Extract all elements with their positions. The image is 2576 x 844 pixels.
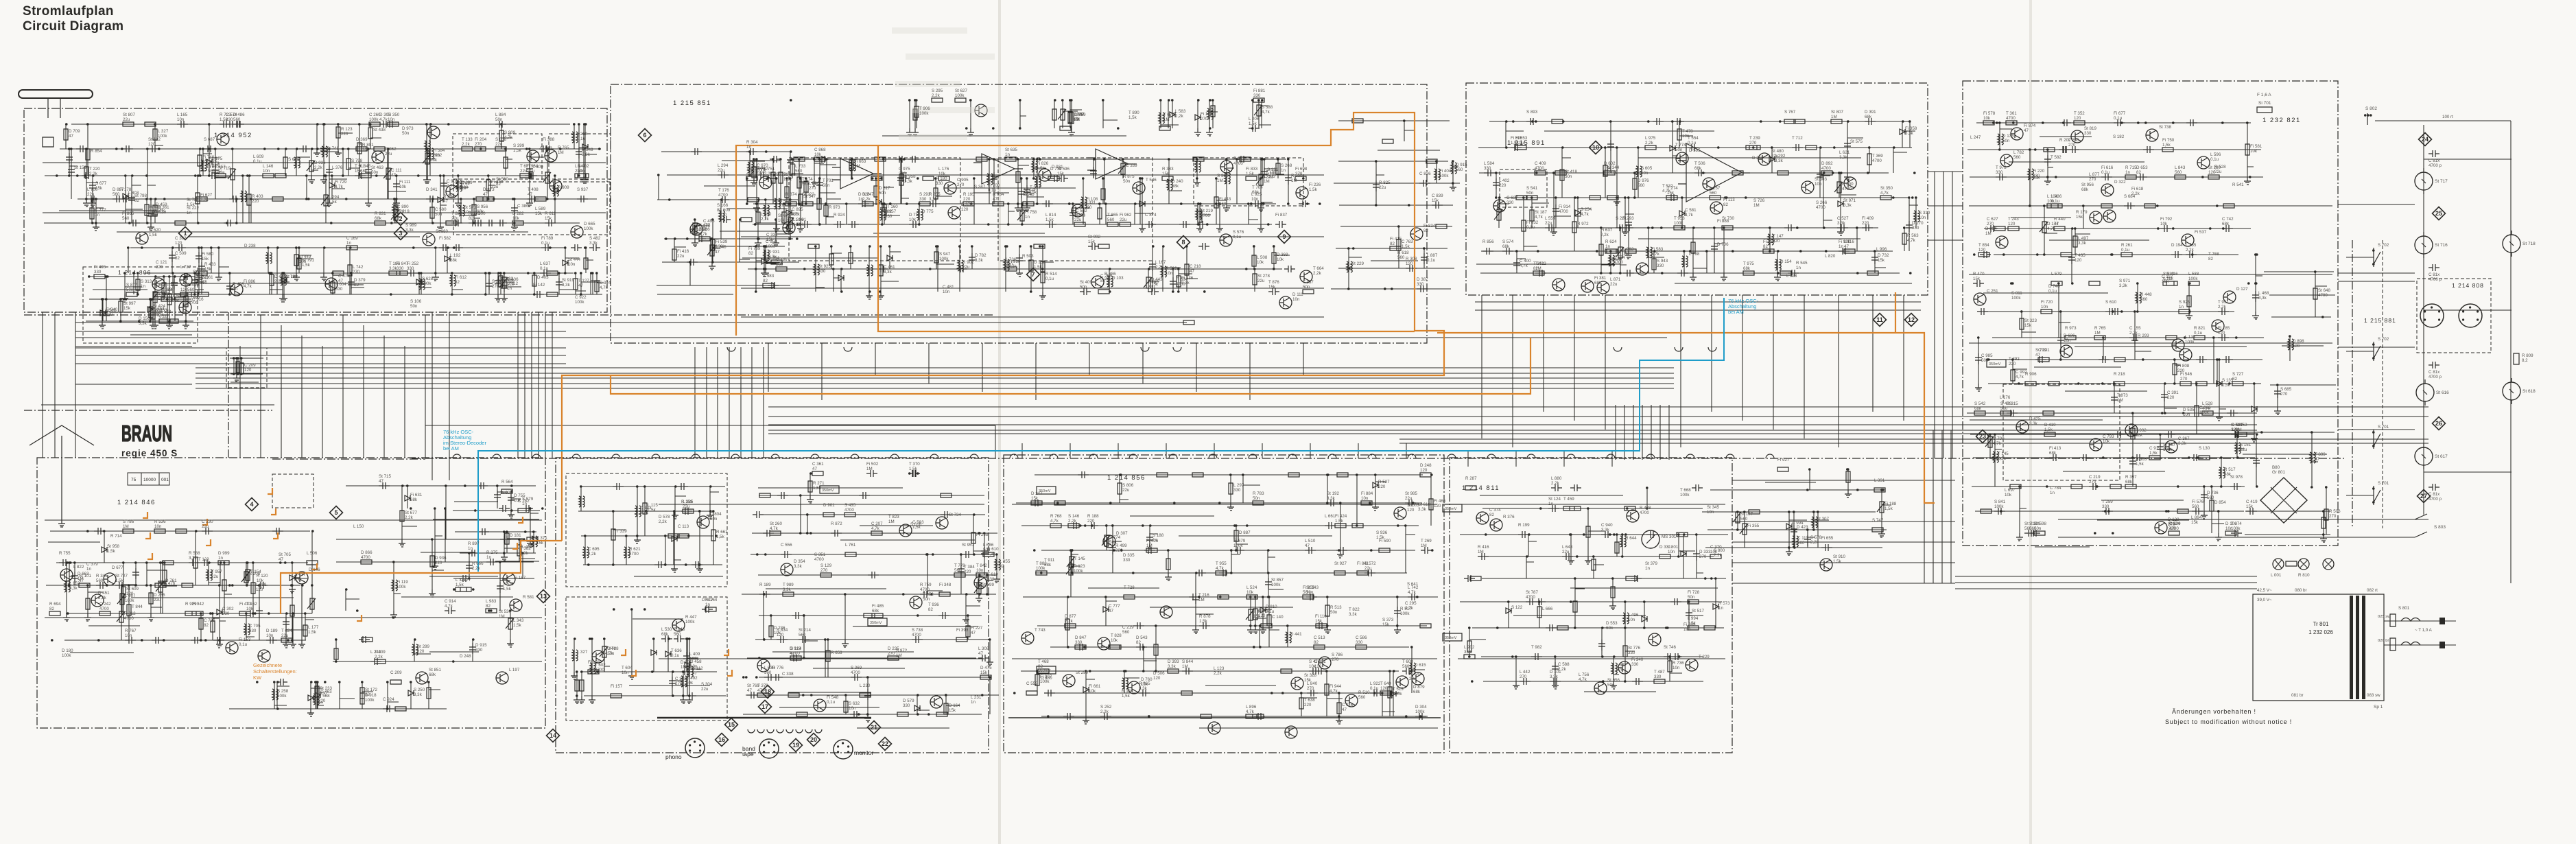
svg-text:4,7k: 4,7k xyxy=(335,185,344,189)
svg-text:D 720: D 720 xyxy=(1409,672,1421,677)
svg-text:C 338: C 338 xyxy=(782,672,794,677)
svg-text:S 738: S 738 xyxy=(912,628,923,633)
svg-text:S 304: S 304 xyxy=(701,682,713,687)
svg-text:0,1u: 0,1u xyxy=(988,188,997,193)
svg-text:Fi 698: Fi 698 xyxy=(1295,167,1308,172)
svg-text:10n: 10n xyxy=(1673,666,1680,670)
svg-text:St 480: St 480 xyxy=(1771,149,1784,154)
svg-text:R 653: R 653 xyxy=(831,650,842,655)
svg-text:16: 16 xyxy=(718,736,725,743)
svg-text:2,2k: 2,2k xyxy=(1175,114,1184,119)
svg-text:T 865: T 865 xyxy=(1107,213,1118,218)
svg-text:100k: 100k xyxy=(2199,410,2209,415)
svg-text:4700: 4700 xyxy=(1640,511,1649,515)
svg-text:S 786: S 786 xyxy=(123,519,134,524)
svg-text:R 810: R 810 xyxy=(2298,573,2310,578)
svg-text:15k: 15k xyxy=(2246,504,2254,509)
svg-text:220: 220 xyxy=(1115,548,1123,553)
svg-text:St 438: St 438 xyxy=(373,128,386,132)
svg-text:68k: 68k xyxy=(1606,626,1614,631)
svg-text:T 545: T 545 xyxy=(172,294,183,298)
svg-text:T 608: T 608 xyxy=(1402,659,1413,664)
svg-text:R 661: R 661 xyxy=(716,530,728,535)
svg-text:100k: 100k xyxy=(919,111,929,116)
svg-text:L 700: L 700 xyxy=(87,187,98,192)
svg-text:B80: B80 xyxy=(2272,465,2280,470)
svg-text:T 823: T 823 xyxy=(888,515,899,519)
svg-text:3,3k: 3,3k xyxy=(1464,650,1473,655)
svg-text:1M: 1M xyxy=(2094,331,2101,336)
svg-text:Fi 226: Fi 226 xyxy=(1309,183,1321,187)
svg-text:R 402: R 402 xyxy=(578,164,589,169)
svg-text:St 635: St 635 xyxy=(1005,148,1017,152)
svg-text:270: 270 xyxy=(2089,177,2096,182)
svg-text:C 793: C 793 xyxy=(2103,434,2114,439)
svg-text:10000: 10000 xyxy=(143,478,156,482)
svg-text:4700: 4700 xyxy=(718,193,728,198)
svg-text:4,7k: 4,7k xyxy=(1408,590,1417,595)
svg-text:R 666: R 666 xyxy=(472,561,484,566)
svg-text:100k: 100k xyxy=(766,244,775,249)
svg-text:St 746: St 746 xyxy=(1664,645,1676,650)
svg-text:C 919: C 919 xyxy=(2149,446,2161,451)
svg-text:C 736: C 736 xyxy=(204,618,215,623)
svg-text:T 123: T 123 xyxy=(198,557,209,562)
svg-text:560: 560 xyxy=(1456,167,1463,172)
svg-text:15k: 15k xyxy=(1268,285,1276,290)
svg-text:50n: 50n xyxy=(1253,496,1260,501)
svg-text:1M: 1M xyxy=(1831,115,1837,119)
svg-text:2,2k: 2,2k xyxy=(405,515,414,520)
svg-text:2,2k: 2,2k xyxy=(2131,191,2140,196)
svg-text:330: 330 xyxy=(226,117,233,122)
svg-text:Fi 792: Fi 792 xyxy=(2160,217,2173,222)
svg-text:0,1u: 0,1u xyxy=(526,169,535,174)
svg-text:47: 47 xyxy=(1844,244,1849,249)
svg-text:C 282: C 282 xyxy=(518,499,530,504)
svg-text:St 857: St 857 xyxy=(1271,578,1284,583)
svg-text:1n: 1n xyxy=(2179,305,2184,309)
svg-text:2: 2 xyxy=(399,215,402,222)
svg-text:C 975: C 975 xyxy=(899,167,910,172)
svg-text:560: 560 xyxy=(1402,664,1410,669)
svg-text:120: 120 xyxy=(2074,116,2081,121)
svg-text:47: 47 xyxy=(483,192,488,197)
svg-text:47: 47 xyxy=(993,197,997,202)
svg-text:T 145: T 145 xyxy=(1998,452,2009,456)
svg-text:S 963: S 963 xyxy=(1217,174,1229,178)
svg-text:4,7k: 4,7k xyxy=(1405,606,1414,611)
svg-text:St 957: St 957 xyxy=(962,543,974,548)
svg-text:St 738: St 738 xyxy=(2159,125,2171,130)
svg-text:3,3k: 3,3k xyxy=(139,321,147,326)
svg-text:L 637: L 637 xyxy=(540,261,551,266)
svg-text:2,2k: 2,2k xyxy=(1100,710,1109,714)
svg-text:120: 120 xyxy=(1153,676,1161,681)
svg-text:100k: 100k xyxy=(365,698,375,703)
svg-text:Fi 348: Fi 348 xyxy=(939,583,952,587)
svg-text:1,5k: 1,5k xyxy=(1402,244,1410,249)
svg-text:Fi 111: Fi 111 xyxy=(399,180,411,185)
svg-text:S 106: S 106 xyxy=(410,299,422,304)
svg-text:C 481: C 481 xyxy=(943,285,954,290)
svg-text:T 259: T 259 xyxy=(2102,500,2113,504)
svg-text:D 892: D 892 xyxy=(1821,161,1833,166)
svg-text:R 189: R 189 xyxy=(759,583,771,587)
svg-text:10: 10 xyxy=(1592,144,1599,151)
svg-text:1M: 1M xyxy=(1623,252,1629,257)
svg-text:Fi 153: Fi 153 xyxy=(239,637,251,642)
svg-text:10n: 10n xyxy=(1668,550,1675,554)
svg-text:Fi 655: Fi 655 xyxy=(1303,585,1315,590)
svg-text:R 528: R 528 xyxy=(2214,165,2226,169)
svg-text:47: 47 xyxy=(1190,269,1194,274)
svg-text:270: 270 xyxy=(1987,222,1994,226)
svg-text:T 982: T 982 xyxy=(1531,645,1542,650)
svg-text:82: 82 xyxy=(1533,266,1538,271)
svg-text:Fi 220: Fi 220 xyxy=(2033,169,2045,174)
svg-text:St 616: St 616 xyxy=(2436,390,2449,395)
svg-text:50n: 50n xyxy=(1330,610,1338,615)
svg-text:330: 330 xyxy=(776,262,783,267)
svg-text:C 374: C 374 xyxy=(1489,508,1501,513)
svg-text:220: 220 xyxy=(459,186,466,191)
svg-text:L 376: L 376 xyxy=(332,165,343,170)
svg-text:1M: 1M xyxy=(854,164,860,169)
svg-text:S 687: S 687 xyxy=(204,137,215,142)
svg-text:47: 47 xyxy=(528,192,532,197)
svg-text:22u: 22u xyxy=(683,504,690,509)
svg-text:D 480: D 480 xyxy=(1041,676,1052,681)
svg-text:4,7k: 4,7k xyxy=(447,184,456,189)
svg-text:St 717: St 717 xyxy=(2435,179,2448,184)
svg-text:Fi 631: Fi 631 xyxy=(410,493,423,497)
svg-text:0,1u: 0,1u xyxy=(540,266,549,271)
svg-text:St 699: St 699 xyxy=(982,583,994,587)
svg-text:3,3k: 3,3k xyxy=(1550,675,1559,679)
svg-text:10k: 10k xyxy=(2005,493,2012,497)
svg-text:4,7k: 4,7k xyxy=(746,172,755,176)
svg-text:Fi 584: Fi 584 xyxy=(433,148,445,153)
svg-text:St 997: St 997 xyxy=(123,301,136,306)
svg-text:220: 220 xyxy=(2167,395,2175,400)
svg-text:T 957: T 957 xyxy=(211,570,222,574)
svg-text:L 843: L 843 xyxy=(2175,165,2186,170)
svg-text:3,3k: 3,3k xyxy=(975,258,984,263)
svg-text:S 336: S 336 xyxy=(492,279,504,284)
svg-text:St 278: St 278 xyxy=(1257,274,1270,279)
svg-text:10n: 10n xyxy=(622,670,629,675)
svg-text:50n: 50n xyxy=(1981,358,1989,363)
svg-text:47: 47 xyxy=(747,688,752,693)
svg-text:2,2k: 2,2k xyxy=(761,217,770,222)
svg-text:R 624: R 624 xyxy=(1605,239,1617,244)
svg-text:Fi 708: Fi 708 xyxy=(988,183,1000,188)
svg-text:220: 220 xyxy=(341,132,348,137)
svg-text:C 777: C 777 xyxy=(95,208,106,213)
svg-text:1,5k: 1,5k xyxy=(1199,619,1208,624)
svg-text:T 899: T 899 xyxy=(2315,452,2326,457)
svg-text:T 636: T 636 xyxy=(671,648,682,653)
svg-text:L 409: L 409 xyxy=(689,652,700,657)
svg-text:D 578: D 578 xyxy=(659,515,670,519)
svg-text:560: 560 xyxy=(954,568,962,573)
svg-text:L 863: L 863 xyxy=(1623,247,1634,252)
svg-text:10n: 10n xyxy=(388,117,395,122)
svg-text:330: 330 xyxy=(936,181,943,186)
svg-text:1,5k: 1,5k xyxy=(1246,172,1255,176)
svg-text:C 155: C 155 xyxy=(2129,326,2141,331)
svg-text:L 468: L 468 xyxy=(2258,291,2269,296)
svg-text:Fi 582: Fi 582 xyxy=(439,236,451,241)
svg-text:350mV: 350mV xyxy=(1039,669,1051,673)
svg-text:100k: 100k xyxy=(1393,692,1402,696)
svg-text:3,3k: 3,3k xyxy=(1837,221,1846,226)
svg-text:10k: 10k xyxy=(2103,439,2110,444)
svg-text:82: 82 xyxy=(1314,640,1319,645)
svg-text:L 442: L 442 xyxy=(1520,670,1531,675)
svg-text:270: 270 xyxy=(1699,554,1707,559)
svg-text:D 459: D 459 xyxy=(156,202,167,207)
svg-text:St 787: St 787 xyxy=(1526,590,1538,595)
svg-text:St 560: St 560 xyxy=(496,177,508,182)
svg-text:St 345: St 345 xyxy=(1707,505,1719,510)
svg-text:L 666: L 666 xyxy=(1542,607,1553,611)
svg-text:S 310: S 310 xyxy=(1919,211,1930,215)
svg-text:47: 47 xyxy=(1305,543,1310,548)
svg-text:15k: 15k xyxy=(535,211,543,216)
svg-text:1 232 026: 1 232 026 xyxy=(2308,629,2333,635)
svg-text:270: 270 xyxy=(675,681,683,686)
svg-text:15k: 15k xyxy=(1432,198,1439,203)
svg-text:Fi 178: Fi 178 xyxy=(119,187,132,192)
svg-text:S 702: S 702 xyxy=(2378,337,2389,342)
svg-text:St 583: St 583 xyxy=(540,146,552,151)
svg-text:82: 82 xyxy=(49,607,54,611)
svg-text:St 718: St 718 xyxy=(2522,242,2536,246)
svg-text:St 677: St 677 xyxy=(405,511,417,515)
svg-text:R 499: R 499 xyxy=(1115,543,1127,548)
svg-text:Fi 637: Fi 637 xyxy=(1600,228,1613,233)
svg-text:560: 560 xyxy=(128,196,136,200)
svg-text:S 811: S 811 xyxy=(2011,291,2022,296)
svg-text:R 294: R 294 xyxy=(443,194,455,199)
svg-text:R 195: R 195 xyxy=(963,192,975,197)
svg-text:Fi 729: Fi 729 xyxy=(335,180,347,185)
svg-text:Sp 1: Sp 1 xyxy=(2374,705,2383,710)
svg-text:S 641: S 641 xyxy=(1407,582,1419,587)
svg-text:Fi 142: Fi 142 xyxy=(533,283,545,288)
svg-text:330: 330 xyxy=(94,270,102,274)
svg-text:1M: 1M xyxy=(681,665,687,670)
svg-text:0,1u: 0,1u xyxy=(1045,277,1054,281)
svg-text:R 374: R 374 xyxy=(785,192,797,197)
svg-text:St 192: St 192 xyxy=(1327,491,1339,496)
svg-text:10k: 10k xyxy=(246,607,254,611)
svg-text:100k: 100k xyxy=(369,117,379,122)
svg-text:100k: 100k xyxy=(62,653,71,658)
svg-text:2,2k: 2,2k xyxy=(588,552,597,556)
svg-text:R 564: R 564 xyxy=(501,480,513,484)
svg-text:L 528: L 528 xyxy=(2202,401,2213,406)
svg-text:R 588: R 588 xyxy=(189,551,200,556)
svg-text:15k: 15k xyxy=(2024,323,2032,328)
svg-text:22u: 22u xyxy=(1562,550,1570,554)
svg-text:330: 330 xyxy=(1657,263,1664,268)
svg-text:St 124: St 124 xyxy=(1548,497,1561,502)
svg-text:C 695: C 695 xyxy=(588,547,600,552)
svg-text:47: 47 xyxy=(279,557,283,562)
svg-text:T 854: T 854 xyxy=(1978,243,1989,248)
svg-text:L 884: L 884 xyxy=(495,113,506,117)
svg-text:D 250: D 250 xyxy=(1752,156,1764,161)
svg-text:St 956: St 956 xyxy=(2081,183,2094,187)
svg-text:Fi 618: Fi 618 xyxy=(2131,187,2144,191)
svg-text:L 192: L 192 xyxy=(450,253,461,258)
svg-text:S 122: S 122 xyxy=(1511,605,1523,610)
svg-text:0,1u: 0,1u xyxy=(671,653,680,658)
svg-text:68k: 68k xyxy=(2081,187,2089,192)
svg-text:15k: 15k xyxy=(215,169,222,174)
svg-text:4700 p: 4700 p xyxy=(2429,163,2442,168)
svg-text:68k: 68k xyxy=(2125,480,2133,484)
svg-text:82: 82 xyxy=(486,604,491,609)
svg-text:C 116: C 116 xyxy=(1342,703,1354,707)
svg-text:10n: 10n xyxy=(2041,305,2048,309)
svg-text:C 786: C 786 xyxy=(776,257,788,262)
svg-text:C 380: C 380 xyxy=(517,204,529,209)
svg-text:T 435: T 435 xyxy=(2075,253,2085,258)
svg-text:D 947: D 947 xyxy=(189,296,200,301)
svg-text:68k: 68k xyxy=(1413,690,1421,694)
svg-text:15k: 15k xyxy=(949,708,956,713)
svg-text:1,5k: 1,5k xyxy=(1335,519,1344,524)
svg-text:C 914: C 914 xyxy=(445,599,456,604)
svg-text:L 202: L 202 xyxy=(1464,645,1475,650)
svg-text:L 735: L 735 xyxy=(2186,243,2197,248)
svg-text:22u: 22u xyxy=(520,169,528,174)
svg-text:1M: 1M xyxy=(1478,550,1484,554)
svg-text:T 384: T 384 xyxy=(964,565,975,570)
svg-text:47: 47 xyxy=(338,279,343,283)
svg-text:330: 330 xyxy=(1356,640,1363,645)
svg-text:3,3k: 3,3k xyxy=(1905,131,1914,136)
svg-text:R 581: R 581 xyxy=(523,595,534,600)
svg-text:D 775: D 775 xyxy=(922,209,934,214)
svg-text:4,7k: 4,7k xyxy=(1880,191,1889,196)
svg-text:St 971: St 971 xyxy=(1843,198,1856,203)
svg-text:1,5k: 1,5k xyxy=(2222,383,2231,388)
svg-text:T 765: T 765 xyxy=(459,181,470,186)
svg-text:R 588: R 588 xyxy=(1166,266,1177,271)
svg-text:220: 220 xyxy=(397,209,405,214)
svg-text:St 409: St 409 xyxy=(1080,280,1092,285)
svg-text:10n: 10n xyxy=(690,664,698,669)
svg-text:120: 120 xyxy=(244,368,252,373)
svg-text:1M: 1M xyxy=(2236,427,2242,432)
svg-text:R 563: R 563 xyxy=(1907,233,1919,238)
svg-text:Fi 413: Fi 413 xyxy=(2049,446,2061,451)
svg-text:0,1u: 0,1u xyxy=(827,700,836,705)
svg-text:330: 330 xyxy=(987,577,995,582)
svg-text:50n: 50n xyxy=(1565,174,1572,179)
svg-text:1,5k: 1,5k xyxy=(2149,451,2158,456)
svg-text:D 394: D 394 xyxy=(1985,226,1997,231)
svg-text:120: 120 xyxy=(1978,248,1986,253)
svg-text:D 265: D 265 xyxy=(154,593,165,598)
svg-text:1 215 851: 1 215 851 xyxy=(673,99,711,107)
svg-text:Fi 227: Fi 227 xyxy=(971,626,983,631)
svg-text:L 922: L 922 xyxy=(1370,681,1381,686)
svg-text:St 328: St 328 xyxy=(1304,673,1316,678)
svg-text:C 251: C 251 xyxy=(1987,289,1998,294)
svg-text:Fi 581: Fi 581 xyxy=(2250,144,2262,149)
svg-text:St 769: St 769 xyxy=(747,683,759,688)
svg-text:10k: 10k xyxy=(2160,222,2168,226)
svg-text:560: 560 xyxy=(674,632,681,637)
svg-text:T 989: T 989 xyxy=(783,583,794,587)
svg-text:10k: 10k xyxy=(1246,590,1254,595)
svg-text:St 444: St 444 xyxy=(568,257,580,262)
svg-text:L 991: L 991 xyxy=(796,218,807,222)
svg-text:D 936: D 936 xyxy=(314,161,326,165)
svg-text:L 134: L 134 xyxy=(2185,335,2196,340)
svg-text:100k: 100k xyxy=(1271,583,1281,587)
svg-text:C 905: C 905 xyxy=(957,178,969,183)
svg-text:1n: 1n xyxy=(507,286,512,291)
svg-text:D 961: D 961 xyxy=(823,503,835,508)
svg-text:T 906: T 906 xyxy=(919,106,930,111)
svg-text:D 403: D 403 xyxy=(537,275,549,280)
svg-text:22u: 22u xyxy=(1122,488,1130,493)
svg-text:4,7k: 4,7k xyxy=(1050,519,1059,524)
svg-text:4,7k: 4,7k xyxy=(2202,406,2211,411)
svg-text:Fi 537: Fi 537 xyxy=(2195,230,2207,235)
svg-text:4700: 4700 xyxy=(1559,209,1568,214)
svg-text:100k: 100k xyxy=(584,226,593,231)
svg-text:Fi 808: Fi 808 xyxy=(2177,364,2190,368)
svg-text:120: 120 xyxy=(1420,468,1428,473)
svg-text:1n: 1n xyxy=(218,556,223,561)
svg-text:1,5k: 1,5k xyxy=(1045,218,1054,222)
svg-text:10n: 10n xyxy=(1361,496,1369,501)
svg-text:330: 330 xyxy=(475,648,483,653)
svg-text:1,5k: 1,5k xyxy=(329,200,338,204)
svg-text:S 702: S 702 xyxy=(2378,243,2389,248)
svg-text:120: 120 xyxy=(2218,331,2225,336)
svg-text:1,5k: 1,5k xyxy=(456,583,464,587)
svg-text:1M: 1M xyxy=(1264,179,1270,184)
svg-text:9: 9 xyxy=(1282,233,1286,240)
svg-text:St 919: St 919 xyxy=(562,278,574,283)
svg-text:1,5k: 1,5k xyxy=(115,578,124,583)
svg-text:47: 47 xyxy=(79,578,84,583)
svg-text:22u: 22u xyxy=(202,524,209,529)
svg-text:50n: 50n xyxy=(578,169,585,174)
svg-text:S 331: S 331 xyxy=(1085,200,1096,205)
svg-text:100k: 100k xyxy=(397,585,406,589)
svg-text:L 822: L 822 xyxy=(73,565,84,570)
svg-text:22u: 22u xyxy=(281,633,289,638)
svg-text:D 135: D 135 xyxy=(2002,134,2014,139)
svg-text:10k: 10k xyxy=(172,298,180,303)
svg-text:L 343: L 343 xyxy=(513,618,524,623)
svg-text:R 825: R 825 xyxy=(1379,180,1391,185)
svg-text:Fi 679: Fi 679 xyxy=(1233,539,1246,543)
svg-text:Fi 776: Fi 776 xyxy=(772,666,784,670)
svg-text:22u: 22u xyxy=(962,265,970,270)
svg-text:R 759: R 759 xyxy=(920,583,932,587)
